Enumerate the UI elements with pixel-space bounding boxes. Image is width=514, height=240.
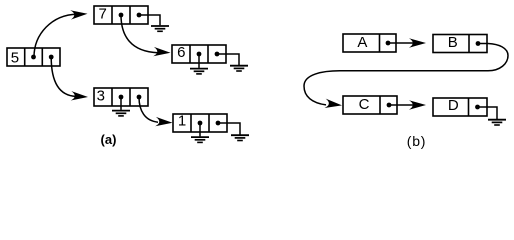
svg-text:3: 3 bbox=[97, 88, 105, 105]
svg-text:5: 5 bbox=[11, 50, 19, 67]
svg-text:D: D bbox=[448, 97, 459, 114]
svg-text:(b): (b) bbox=[407, 133, 427, 149]
svg-text:6: 6 bbox=[177, 44, 185, 61]
svg-text:B: B bbox=[448, 34, 458, 51]
svg-text:C: C bbox=[359, 96, 370, 113]
svg-text:(a): (a) bbox=[101, 132, 117, 147]
svg-text:1: 1 bbox=[178, 112, 186, 129]
svg-text:A: A bbox=[357, 34, 367, 51]
svg-text:7: 7 bbox=[99, 5, 107, 22]
